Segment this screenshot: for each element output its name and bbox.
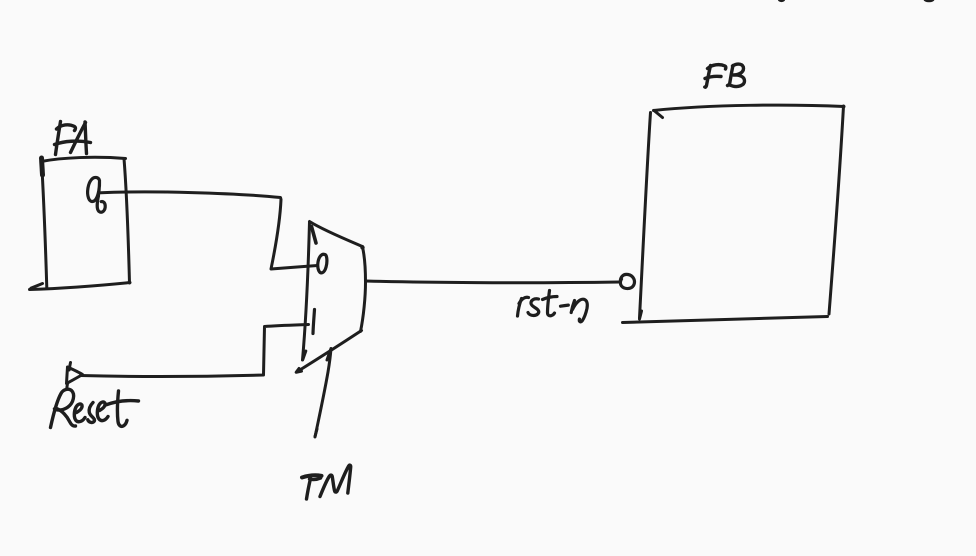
stray mark top 2: [924, 0, 935, 2]
wire TM select: [315, 349, 331, 438]
label TM: [302, 465, 351, 499]
pin label 0 (mux input 0): [318, 254, 327, 273]
label FA: [55, 122, 91, 155]
block FB box: [623, 105, 845, 322]
net label rst-n: [518, 291, 588, 322]
block FA box: [30, 157, 131, 289]
stray mark top 1: [778, 0, 785, 2]
inverter bubble at FB input: [620, 274, 634, 288]
wire mux output rst-n: [366, 281, 620, 283]
wire Q to mux input 0: [101, 192, 318, 269]
pin label 1 (mux input 1): [313, 310, 315, 334]
node Reset input connector: [67, 363, 83, 389]
mux U1 body: [296, 222, 365, 373]
pin Q of FA: [88, 177, 106, 212]
wire Reset to mux input 1: [81, 325, 309, 377]
label FB: [705, 64, 745, 87]
label Reset: [51, 389, 139, 427]
